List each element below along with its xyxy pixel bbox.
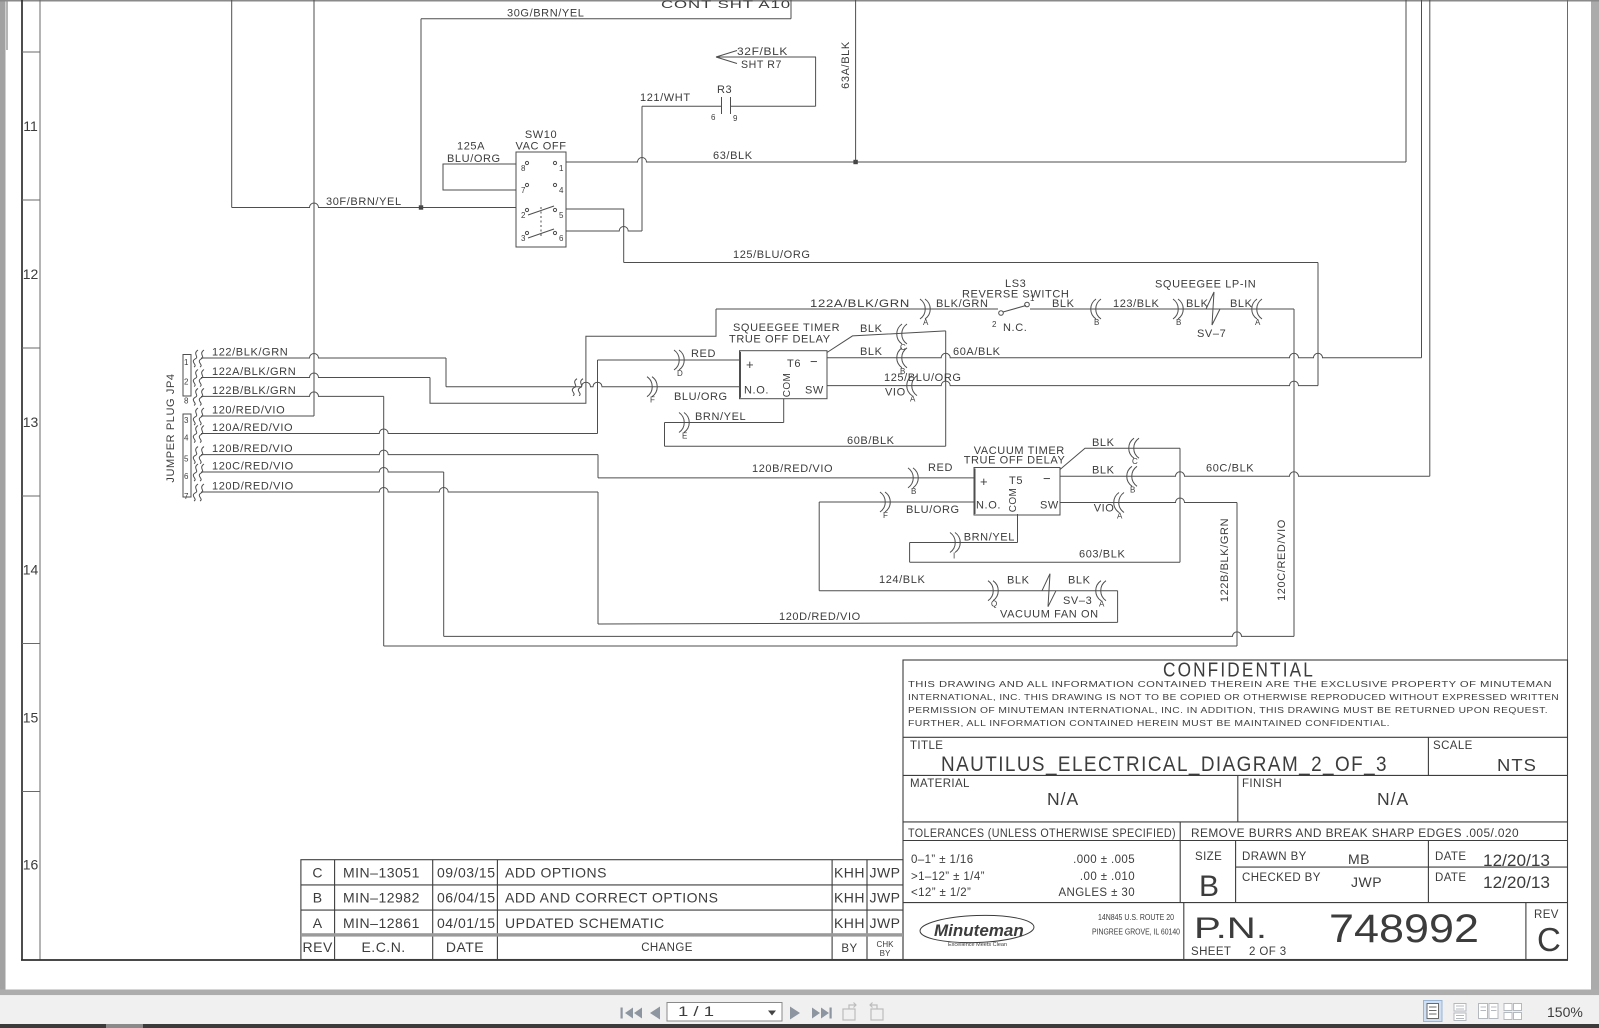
connector A T6 SW — [912, 376, 917, 396]
connector B LS3 — [1096, 299, 1101, 319]
svg-text:09/03/15: 09/03/15 — [437, 865, 496, 881]
svg-text:120D/RED/VIO: 120D/RED/VIO — [212, 481, 294, 493]
svg-text:30F/BRN/YEL: 30F/BRN/YEL — [326, 196, 402, 208]
connector A T5 SW — [1119, 493, 1124, 513]
wire x946 vertical — [945, 331, 947, 446]
svg-text:B: B — [1176, 318, 1181, 327]
junction 30F/30G — [419, 205, 423, 209]
JP4 wire break row 5 — [193, 426, 198, 443]
wire 30F/BRN/YEL — [232, 203, 516, 208]
svg-text:I: I — [953, 552, 955, 561]
title block line2 — [903, 774, 1568, 776]
svg-text:120B/RED/VIO: 120B/RED/VIO — [212, 443, 293, 455]
toolbar page-number box — [667, 1003, 782, 1022]
svg-text:.00 ± .010: .00 ± .010 — [1080, 871, 1135, 883]
svg-text:+: + — [746, 357, 755, 372]
connector B squeegee — [1173, 299, 1178, 319]
svg-text:MIN–12982: MIN–12982 — [343, 890, 420, 906]
wire break on T6 N.O. line — [572, 379, 577, 396]
wire 120A/RED/VIO row5 — [201, 429, 598, 434]
svg-text:DRAWN BY: DRAWN BY — [1242, 851, 1307, 863]
toolbar rotate icons (disabled) — [843, 1003, 856, 1021]
wire 125/BLU/ORG lower — [827, 381, 1318, 386]
revision table frame — [301, 860, 903, 960]
svg-text:120/RED/VIO: 120/RED/VIO — [212, 405, 285, 417]
svg-text:JUMPER PLUG JP4: JUMPER PLUG JP4 — [165, 373, 177, 482]
connector A LS3 — [920, 299, 925, 319]
svg-text:COM: COM — [1008, 488, 1019, 513]
svg-text:A: A — [1099, 600, 1105, 609]
toolbar next-page button — [790, 1007, 800, 1020]
rev table column — [866, 860, 868, 960]
wire T5 SW VIO — [1060, 498, 1237, 503]
svg-text:N.C.: N.C. — [1003, 322, 1027, 334]
title block line — [903, 736, 1568, 738]
svg-text:C: C — [312, 865, 323, 881]
sheet left border — [21, 0, 23, 961]
wire 60C/BLK — [1060, 472, 1430, 477]
svg-text:1: 1 — [1030, 294, 1035, 303]
zone tick — [22, 791, 40, 793]
title block line3 — [903, 821, 1568, 823]
svg-text:−: − — [810, 354, 819, 369]
svg-text:13: 13 — [23, 414, 39, 430]
svg-text:BY: BY — [880, 949, 891, 958]
svg-text:1 / 1: 1 / 1 — [678, 1004, 714, 1019]
svg-text:120A/RED/VIO: 120A/RED/VIO — [212, 422, 293, 434]
wire 120/RED/VIO vertical to sheet top — [313, 0, 315, 416]
svg-text:.000 ± .005: .000 ± .005 — [1073, 854, 1135, 866]
junction 63A/BLK — [853, 160, 857, 164]
svg-text:32F/BLK: 32F/BLK — [737, 46, 788, 58]
wire 120D vertical x598 — [597, 492, 599, 624]
svg-text:B: B — [1130, 485, 1135, 494]
svg-text:125/BLU/ORG: 125/BLU/ORG — [733, 249, 811, 261]
toolbar background — [0, 995, 1599, 1024]
toolbar first-page button — [621, 1008, 643, 1019]
svg-text:63/BLK: 63/BLK — [713, 150, 753, 162]
connector D — [674, 350, 679, 370]
size cell divider — [1235, 841, 1237, 903]
svg-text:DATE: DATE — [1435, 851, 1466, 863]
SW10 right pin 6 — [553, 231, 556, 234]
wire SW10 pin5 to 125/BLU/ORG — [566, 209, 624, 263]
svg-text:120C/RED/VIO: 120C/RED/VIO — [1276, 519, 1288, 601]
svg-text:ADD OPTIONS: ADD OPTIONS — [505, 865, 607, 881]
layout icon continuous — [1454, 1004, 1466, 1021]
svg-text:B: B — [911, 487, 916, 496]
svg-text:MIN–12861: MIN–12861 — [343, 915, 420, 931]
scale cell divider — [1427, 737, 1429, 775]
svg-text:120D/RED/VIO: 120D/RED/VIO — [779, 611, 861, 623]
wire BLU/ORG T5 N.O. — [819, 501, 974, 503]
wire BLU/ORG to T6 N.O. — [446, 382, 740, 387]
JP4 wire break row 8 — [193, 484, 198, 501]
wire T6 RED vertical — [597, 360, 599, 434]
wire 122A jog — [430, 309, 716, 403]
svg-text:F: F — [883, 511, 888, 520]
switch SW10 box — [516, 152, 566, 247]
JP4 wire break row 4 — [193, 408, 198, 425]
wire 30G/BRN/YEL vertical — [420, 19, 422, 208]
svg-text:THIS DRAWING AND ALL INFOR: THIS DRAWING AND ALL INFORMATION CONTAIN… — [908, 679, 1552, 689]
svg-text:BLU/ORG: BLU/ORG — [674, 391, 728, 403]
svg-text:C: C — [1537, 921, 1561, 958]
svg-text:60A/BLK: 60A/BLK — [953, 346, 1001, 358]
svg-text:SQUEEGEE LP-IN: SQUEEGEE LP-IN — [1155, 279, 1256, 291]
wire 120B jog down — [597, 455, 599, 478]
connector I — [950, 533, 955, 553]
svg-text:SQUEEGEE TIMER: SQUEEGEE TIMER — [733, 322, 840, 334]
svg-text:JWP: JWP — [1351, 874, 1382, 890]
svg-text:P.N.: P.N. — [1194, 912, 1267, 945]
svg-text:BLK: BLK — [1052, 298, 1075, 310]
zone tick — [22, 51, 40, 53]
svg-text:BRN/YEL: BRN/YEL — [964, 532, 1015, 544]
svg-text:BLU/ORG: BLU/ORG — [447, 153, 501, 165]
svg-text:A: A — [910, 395, 916, 404]
svg-text:B: B — [1199, 870, 1219, 903]
pane edge artifact top-left — [6, 0, 8, 50]
wire BRN/YEL T6 — [665, 422, 784, 424]
svg-text:BLK: BLK — [860, 346, 883, 358]
svg-text:2: 2 — [184, 378, 189, 387]
svg-text:C: C — [900, 343, 906, 352]
svg-text:Minuteman: Minuteman — [934, 921, 1024, 940]
svg-text:14N845 U.S. ROUTE 20: 14N845 U.S. ROUTE 20 — [1098, 913, 1174, 922]
wire 125/BLU/ORG vertical x1318 — [1317, 263, 1319, 386]
rev table column — [496, 860, 498, 960]
wire 63/BLK — [566, 158, 1406, 163]
JP4 wire break row 6 — [193, 447, 198, 464]
svg-text:B: B — [313, 890, 323, 906]
svg-text:<12” ± 1/2”: <12” ± 1/2” — [911, 887, 971, 899]
svg-text:NTS: NTS — [1497, 755, 1537, 775]
svg-text:9: 9 — [733, 114, 738, 123]
connector B T5+ — [908, 468, 913, 488]
wire 122B bottom run — [384, 645, 1237, 647]
svg-text:16: 16 — [23, 857, 39, 873]
svg-text:INTERNATIONAL, INC. THIS DR: INTERNATIONAL, INC. THIS DRAWING IS NOT … — [908, 692, 1559, 702]
svg-text:Q: Q — [991, 600, 997, 609]
svg-text:VACUUM FAN ON: VACUUM FAN ON — [1000, 609, 1099, 621]
svg-text:+: + — [980, 474, 989, 489]
connector JP4 body — [183, 355, 191, 397]
wire 63A/BLK vertical — [855, 0, 857, 162]
svg-text:KHH: KHH — [834, 865, 865, 881]
SW10 right pin 1 — [553, 161, 556, 164]
wire 122A/BLK/GRN row2 — [201, 373, 430, 377]
checked row line — [1236, 866, 1568, 868]
svg-text:JWP: JWP — [869, 865, 900, 881]
svg-text:DATE: DATE — [446, 939, 484, 955]
wire 120D/RED/VIO bottom run — [598, 622, 1118, 624]
connector Q — [988, 581, 993, 601]
svg-text:SCALE: SCALE — [1433, 740, 1473, 752]
svg-text:BY: BY — [841, 943, 857, 955]
rev table column — [831, 860, 833, 960]
svg-text:603/BLK: 603/BLK — [1079, 549, 1125, 561]
wire 120C vertical x444 — [443, 472, 445, 636]
wire 122/BLK/GRN row1 — [201, 354, 446, 359]
tolerance cell divider — [1179, 822, 1181, 903]
wire RED to T5 + — [598, 477, 974, 479]
svg-text:A: A — [1255, 318, 1261, 327]
svg-text:E: E — [682, 432, 687, 441]
toolbar grey separator band — [0, 990, 1599, 996]
svg-text:7: 7 — [521, 186, 526, 195]
svg-text:FURTHER, ALL INFORMATION CO: FURTHER, ALL INFORMATION CONTAINED HEREI… — [908, 718, 1390, 728]
wire row1 jog down — [445, 358, 447, 387]
solenoid SV-7 — [1206, 292, 1220, 325]
wire reverse switch right — [1030, 308, 1294, 310]
svg-text:E.C.N.: E.C.N. — [361, 939, 405, 955]
svg-text:3: 3 — [184, 416, 189, 425]
viewer top border — [0, 0, 1599, 2]
svg-text:1: 1 — [559, 164, 564, 173]
wire 122B vertical x384 — [383, 396, 385, 646]
wire T5 COM down — [1017, 514, 1019, 543]
svg-text:C: C — [1132, 457, 1138, 466]
svg-text:124/BLK: 124/BLK — [879, 574, 925, 586]
rev table row line — [301, 884, 903, 886]
svg-text:TITLE: TITLE — [910, 740, 943, 752]
wire T6 BRN/YEL corner down — [664, 423, 666, 447]
wire reverse switch left — [716, 308, 998, 310]
svg-text:CHECKED BY: CHECKED BY — [1242, 872, 1321, 884]
wire 60B/BLK — [665, 445, 946, 447]
svg-text:6: 6 — [559, 234, 564, 243]
SW10 left pin 3 — [525, 231, 528, 234]
solenoid SV-3 — [1042, 574, 1056, 607]
wire 120D/RED/VIO row8 — [201, 488, 598, 493]
svg-text:BLU/ORG: BLU/ORG — [906, 504, 960, 516]
svg-text:0–1” ± 1/16: 0–1” ± 1/16 — [911, 854, 974, 866]
svg-text:N.O.: N.O. — [744, 385, 769, 397]
svg-text:30G/BRN/YEL: 30G/BRN/YEL — [507, 8, 585, 20]
svg-text:VIO: VIO — [1094, 503, 1115, 515]
connector B T5 — [1132, 466, 1137, 486]
svg-text:RED: RED — [691, 348, 716, 360]
svg-text:MIN–13051: MIN–13051 — [343, 865, 420, 881]
svg-text:12: 12 — [23, 266, 39, 282]
svg-text:N/A: N/A — [1047, 789, 1079, 809]
timer T5 box — [974, 468, 1060, 516]
JP4 wire break row 3 — [193, 388, 198, 405]
wire 125/BLU/ORG upper — [624, 262, 1318, 264]
svg-text:PINGREE GROVE, IL 60140: PINGREE GROVE, IL 60140 — [1092, 928, 1180, 937]
svg-text:KHH: KHH — [834, 890, 865, 906]
rev table column — [432, 860, 434, 960]
svg-text:−: − — [1043, 471, 1052, 486]
svg-text:MATERIAL: MATERIAL — [910, 778, 970, 790]
svg-text:REV: REV — [1534, 909, 1559, 921]
sheet right border — [1567, 0, 1569, 961]
svg-text:RED: RED — [928, 462, 953, 474]
svg-text:TRUE OFF DELAY: TRUE OFF DELAY — [964, 455, 1066, 467]
REV cell divider — [1525, 903, 1527, 960]
title block outer frame — [903, 660, 1568, 960]
svg-text:8: 8 — [521, 164, 526, 173]
svg-text:BLK: BLK — [1230, 298, 1253, 310]
wire 63/BLK up to sheet top — [1405, 0, 1407, 162]
viewer right grey margin — [1591, 0, 1599, 990]
JP4 wire break row 2 — [193, 370, 198, 387]
zone tick — [22, 199, 40, 201]
toolbar last-page button — [812, 1008, 832, 1019]
wire 60A/BLK up to sheet top — [1421, 0, 1423, 358]
timer T6 box — [740, 351, 828, 399]
wire T6 COM down — [783, 399, 785, 423]
svg-text:122/BLK/GRN: 122/BLK/GRN — [212, 347, 288, 359]
wire R3 right — [731, 105, 816, 107]
svg-text:DATE: DATE — [1435, 872, 1466, 884]
svg-text:KHH: KHH — [834, 915, 865, 931]
svg-text:TOLERANCES (UNLESS OTHERWISE S: TOLERANCES (UNLESS OTHERWISE SPECIFIED) — [908, 828, 1176, 840]
SW10 left pin 7 — [525, 183, 528, 186]
JP4 wire break row 7 — [193, 464, 198, 481]
wire 124/BLK fan row — [819, 590, 1117, 592]
relay contact R3 — [721, 97, 723, 114]
svg-text:7: 7 — [184, 492, 189, 501]
sheet bottom border — [21, 959, 1568, 961]
svg-text:04/01/15: 04/01/15 — [437, 915, 496, 931]
svg-text:BLK: BLK — [1092, 437, 1115, 449]
svg-text:122B/BLK/GRN: 122B/BLK/GRN — [212, 385, 296, 397]
svg-text:15: 15 — [23, 710, 39, 726]
svg-text:SIZE: SIZE — [1195, 851, 1222, 863]
svg-text:>1–12” ± 1/4”: >1–12” ± 1/4” — [911, 871, 985, 883]
layout icon continuous facing — [1504, 1004, 1522, 1020]
svg-text:122B/BLK/GRN: 122B/BLK/GRN — [1219, 518, 1231, 602]
title block line5 — [903, 902, 1568, 904]
svg-text:5: 5 — [559, 211, 564, 220]
connector A squeegee — [1257, 299, 1262, 319]
finish cell divider — [1237, 775, 1239, 822]
svg-text:PERMISSION OF MINUTEMAN INT: PERMISSION OF MINUTEMAN INTERNATIONAL, I… — [908, 705, 1548, 715]
zone tick — [22, 643, 40, 645]
svg-text:BLK: BLK — [860, 323, 883, 335]
svg-text:CHANGE: CHANGE — [641, 942, 693, 954]
JP4 wire break row 1 — [193, 350, 198, 367]
wire arrow to R3 — [815, 57, 817, 106]
svg-text:8: 8 — [184, 396, 189, 405]
zone column inner line — [39, 0, 41, 960]
wire vertical from sheet top at x232 — [231, 0, 233, 208]
svg-text:SHT R7: SHT R7 — [741, 59, 782, 71]
wire 60A/BLK — [827, 353, 1422, 358]
layout icon single page (active) — [1424, 1001, 1443, 1022]
wire 121/WHT to R3 — [642, 105, 722, 107]
Minuteman logo — [920, 914, 1035, 948]
connector C T5 — [1134, 438, 1139, 458]
svg-text:A: A — [923, 318, 929, 327]
wire 122B/BLK/GRN row3 — [201, 392, 384, 397]
SW10 left pin 2 — [525, 208, 528, 211]
svg-text:SW10: SW10 — [525, 129, 557, 141]
date col divider — [1427, 841, 1429, 903]
svg-text:12/20/13: 12/20/13 — [1483, 874, 1550, 892]
svg-text:2: 2 — [992, 320, 997, 329]
wire T6 minus diagonal — [827, 331, 946, 353]
wire T5 minus diagonal to C line — [1060, 448, 1180, 469]
connector F T5 — [880, 492, 885, 512]
svg-text:122A/BLK/GRN: 122A/BLK/GRN — [810, 298, 910, 310]
svg-text:125/BLU/ORG: 125/BLU/ORG — [884, 372, 962, 384]
svg-text:4: 4 — [184, 434, 189, 443]
svg-text:F: F — [650, 396, 655, 405]
svg-text:COM: COM — [782, 373, 793, 398]
PN cell divider — [1183, 903, 1185, 960]
svg-text:BRN/YEL: BRN/YEL — [695, 411, 746, 423]
scrollbar thumb fragment — [106, 1024, 143, 1028]
svg-text:CHK: CHK — [877, 940, 895, 949]
connector B T6 — [902, 348, 907, 368]
svg-text:11: 11 — [23, 118, 38, 134]
connector C T6 — [902, 324, 907, 344]
svg-text:T6: T6 — [787, 358, 801, 370]
svg-text:A: A — [1117, 512, 1123, 521]
toolbar prev-page button — [650, 1007, 660, 1020]
wire 120B/RED/VIO row6 — [201, 450, 598, 455]
off-page arrow 32F/BLK SHT R7 — [716, 51, 816, 64]
svg-text:SW: SW — [1040, 500, 1059, 512]
connector A fan — [1101, 581, 1106, 601]
svg-text:SHEET: SHEET — [1191, 946, 1231, 958]
svg-text:REV: REV — [303, 939, 333, 955]
svg-text:ANGLES ± 30: ANGLES ± 30 — [1058, 887, 1135, 899]
svg-text:Excellence Meets Clean: Excellence Meets Clean — [948, 942, 1007, 948]
svg-text:06/04/15: 06/04/15 — [437, 890, 496, 906]
SW10 contact blades — [528, 206, 554, 215]
wire fan return corner — [1117, 591, 1119, 623]
wire x819 down to fan row — [818, 502, 820, 591]
wire 120/RED/VIO row4 — [201, 415, 314, 417]
svg-text:4: 4 — [559, 186, 564, 195]
svg-text:SV–7: SV–7 — [1197, 328, 1226, 340]
svg-text:JWP: JWP — [869, 890, 900, 906]
svg-text:123/BLK: 123/BLK — [1113, 298, 1159, 310]
svg-text:BLK: BLK — [1186, 298, 1209, 310]
viewer left grey margin — [0, 0, 6, 990]
rev table row line — [301, 934, 903, 936]
svg-text:60B/BLK: 60B/BLK — [847, 435, 895, 447]
SW10 right pin 5 — [553, 208, 556, 211]
zone tick — [22, 347, 40, 349]
svg-text:UPDATED SCHEMATIC: UPDATED SCHEMATIC — [505, 915, 665, 931]
toolbar bottom dark band — [0, 1024, 1599, 1028]
wire R3 down to SW10 pin6 — [641, 106, 643, 231]
svg-text:1: 1 — [184, 358, 189, 367]
svg-text:N/A: N/A — [1377, 789, 1409, 809]
svg-text:REMOVE BURRS AND BREAK SHARP E: REMOVE BURRS AND BREAK SHARP EDGES .005/… — [1191, 828, 1519, 840]
svg-text:N.O.: N.O. — [976, 500, 1001, 512]
svg-text:SW: SW — [805, 385, 824, 397]
svg-text:120C/RED/VIO: 120C/RED/VIO — [212, 461, 294, 473]
wire SW10 pin6 to R3 — [566, 227, 642, 232]
wire 120C/RED/VIO row7 — [201, 468, 444, 472]
wire 120C vertical x1294 — [1293, 309, 1295, 636]
svg-text:125A: 125A — [457, 141, 485, 153]
title block line4 — [903, 840, 1568, 842]
svg-text:A: A — [313, 915, 323, 931]
svg-text:BLK: BLK — [1007, 575, 1030, 587]
wire 603/BLK vertical x1180 — [1179, 448, 1181, 562]
svg-text:SV–3: SV–3 — [1063, 595, 1092, 607]
svg-text:14: 14 — [23, 562, 39, 578]
connector E — [679, 413, 684, 433]
svg-text:6: 6 — [711, 113, 716, 122]
